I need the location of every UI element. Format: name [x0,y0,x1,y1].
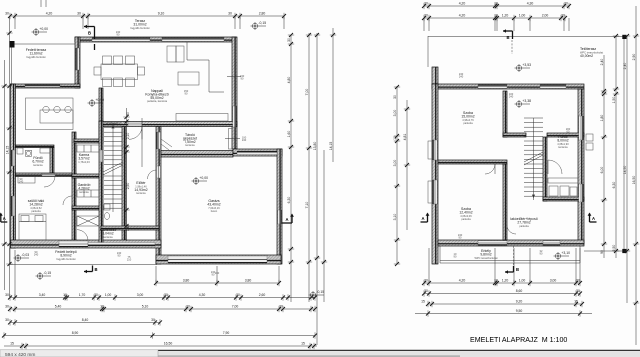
svg-text:Fürdő6,70m2kerámia: Fürdő6,70m2kerámia [32,156,43,167]
svg-text:B: B [88,31,91,36]
svg-text:+0,00: +0,00 [199,176,208,180]
svg-text:10: 10 [100,304,104,308]
svg-text:10: 10 [393,136,397,140]
svg-text:9,20: 9,20 [516,299,523,303]
svg-text:10: 10 [63,293,67,297]
svg-text:30: 30 [424,13,428,17]
svg-text:30: 30 [424,278,428,282]
svg-text:B: B [507,35,510,40]
svg-text:240: 240 [509,95,514,99]
svg-text:3,00: 3,00 [137,293,144,297]
svg-text:90: 90 [600,250,604,254]
svg-text:B: B [95,267,98,272]
svg-text:5,10: 5,10 [142,304,149,308]
svg-text:2,50: 2,50 [126,183,130,190]
svg-text:30: 30 [279,304,283,308]
svg-text:15: 15 [301,341,305,345]
svg-text:A: A [592,216,595,221]
svg-text:15: 15 [421,299,425,303]
svg-text:2,90: 2,90 [632,54,636,61]
svg-text:4,20: 4,20 [459,1,466,5]
svg-text:30: 30 [77,11,81,15]
svg-text:2,00: 2,00 [542,13,549,17]
svg-text:3,00: 3,00 [393,160,397,167]
svg-text:-0,15: -0,15 [43,271,51,275]
svg-text:7,00: 7,00 [305,89,309,96]
svg-text:7,00: 7,00 [232,304,239,308]
svg-text:30: 30 [94,293,98,297]
svg-text:EMELETI ALAPRAJZ M 1:100: EMELETI ALAPRAJZ M 1:100 [470,336,567,344]
svg-text:30: 30 [287,38,291,42]
svg-text:6,00: 6,00 [600,167,604,174]
svg-text:4,30: 4,30 [199,293,206,297]
svg-text:A: A [286,217,289,222]
svg-text:1,00: 1,00 [519,278,526,282]
svg-text:1,20: 1,20 [502,13,509,17]
svg-text:14,50: 14,50 [623,166,627,175]
svg-text:Gardrób4,28m2kerámia: Gardrób4,28m2kerámia [78,183,91,194]
svg-text:90: 90 [126,112,130,116]
svg-text:30: 30 [561,13,565,17]
svg-text:6,30: 6,30 [287,197,291,204]
svg-text:2,50: 2,50 [612,245,616,252]
svg-text:6,30: 6,30 [612,182,616,189]
svg-text:7,10: 7,10 [305,202,309,209]
svg-text:594 x 420 mm: 594 x 420 mm [5,352,35,357]
svg-text:240: 240 [459,75,464,79]
svg-text:30: 30 [564,1,568,5]
svg-text:1,60: 1,60 [287,131,291,138]
svg-text:4,20: 4,20 [459,278,466,282]
svg-text:6,00m2: 6,00m2 [106,122,117,126]
svg-text:240: 240 [242,138,247,142]
svg-text:210: 210 [127,258,132,262]
svg-text:16,50: 16,50 [164,341,173,345]
svg-text:10: 10 [494,278,498,282]
svg-text:Fürdő8,00m24,68x1,90kerámia: Fürdő8,00m24,68x1,90kerámia [557,135,569,149]
svg-text:240: 240 [34,253,39,257]
svg-text:2,40: 2,40 [600,59,604,66]
svg-text:7,90: 7,90 [223,331,230,335]
svg-text:30: 30 [186,304,190,308]
svg-text:2,10: 2,10 [126,133,130,140]
svg-text:240: 240 [215,271,220,275]
svg-text:1,00: 1,00 [519,13,526,17]
svg-text:Kamra3,57m21,76x2,03: Kamra3,57m21,76x2,03 [78,153,90,164]
svg-text:15: 15 [10,341,14,345]
svg-text:30: 30 [5,293,9,297]
svg-text:10: 10 [494,1,498,5]
svg-text:240: 240 [19,180,24,184]
svg-text:30: 30 [424,289,428,293]
svg-text:-0,15: -0,15 [316,290,324,294]
svg-text:1,50: 1,50 [612,97,616,104]
svg-text:2,60: 2,60 [259,293,266,297]
svg-text:+3,38: +3,38 [522,99,531,103]
svg-text:+0,00: +0,00 [95,98,104,102]
svg-text:13,80: 13,80 [313,142,317,151]
svg-text:4,81: 4,81 [403,134,407,141]
svg-text:4,80: 4,80 [287,77,291,84]
svg-text:9,10: 9,10 [158,11,165,15]
svg-text:2,80: 2,80 [259,11,266,15]
svg-text:3,40: 3,40 [39,293,46,297]
svg-text:3,00: 3,00 [550,278,557,282]
svg-text:30: 30 [576,289,580,293]
svg-text:4,20: 4,20 [46,11,53,15]
svg-text:4,30: 4,30 [527,1,534,5]
svg-text:+0,00: +0,00 [39,27,48,31]
svg-text:30: 30 [228,11,232,15]
svg-text:3,10: 3,10 [393,214,397,221]
svg-text:10: 10 [494,13,498,17]
svg-text:8,60: 8,60 [516,289,523,293]
svg-text:1,20: 1,20 [502,278,509,282]
svg-text:30: 30 [576,278,580,282]
svg-text:30: 30 [393,95,397,99]
svg-text:1,70: 1,70 [79,293,86,297]
svg-text:+3,53: +3,53 [522,63,531,67]
svg-text:8,90: 8,90 [72,331,79,335]
svg-text:4,20: 4,20 [459,13,466,17]
svg-text:1,80: 1,80 [600,115,604,122]
svg-text:1,00: 1,00 [105,293,112,297]
svg-text:B: B [516,267,519,272]
svg-text:8,40: 8,40 [82,318,89,322]
svg-text:30: 30 [164,293,168,297]
svg-text:1,40: 1,40 [126,225,130,232]
svg-text:14,15: 14,15 [5,146,9,155]
svg-text:30: 30 [151,318,155,322]
svg-text:30: 30 [5,304,9,308]
svg-text:30: 30 [5,318,9,322]
svg-text:30: 30 [5,11,9,15]
svg-text:30: 30 [236,293,240,297]
svg-text:+3,10: +3,10 [561,251,570,255]
svg-text:14,15: 14,15 [329,142,333,151]
svg-text:30: 30 [424,1,428,5]
svg-text:3,80: 3,80 [245,278,252,282]
svg-text:2,40: 2,40 [623,63,627,70]
svg-text:-0,15: -0,15 [258,21,266,25]
svg-text:3,80: 3,80 [183,278,190,282]
svg-text:3,00: 3,00 [393,110,397,117]
svg-text:5,40: 5,40 [55,304,62,308]
svg-text:9,50: 9,50 [516,309,523,313]
svg-text:16,50: 16,50 [632,176,636,185]
svg-text:A: A [422,216,425,221]
svg-text:15: 15 [574,299,578,303]
svg-text:-0,03: -0,03 [21,253,29,257]
